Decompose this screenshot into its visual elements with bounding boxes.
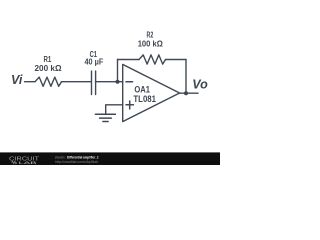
wire op-amp plus input to ground — [106, 105, 123, 114]
wire feedback top left — [118, 59, 140, 61]
svg-text:OA1: OA1 — [134, 85, 150, 95]
node A junction dot — [116, 80, 120, 84]
svg-text:40 µF: 40 µF — [85, 58, 104, 67]
svg-text:R2: R2 — [147, 30, 154, 39]
svg-text:200 kΩ: 200 kΩ — [35, 64, 63, 73]
svg-text:100 kΩ: 100 kΩ — [138, 40, 164, 49]
wire output — [180, 92, 198, 94]
wire feedback vertical left — [117, 60, 119, 82]
ground — [95, 114, 115, 121]
wire C1 to node A — [96, 81, 123, 83]
logo resistor squiggle — [12, 161, 18, 163]
footer CircuitLab logo wordmark — [9, 157, 39, 165]
svg-text:Vo: Vo — [192, 78, 208, 92]
wire feedback top right — [166, 59, 187, 61]
resistor R2 — [139, 55, 166, 64]
svg-text:Vi: Vi — [11, 73, 23, 87]
wire feedback vertical right — [185, 60, 187, 94]
svg-text:TL081: TL081 — [133, 94, 156, 104]
op-amp non-inverting input marker — [126, 101, 133, 109]
op-amp U1 triangle — [123, 64, 180, 121]
svg-text:LAB: LAB — [19, 160, 38, 165]
svg-text:http://circuitlab.com/c/bp5kzb: http://circuitlab.com/c/bp5kzb — [55, 159, 99, 164]
wire R1 to C1 — [62, 81, 92, 83]
capacitor C1 — [92, 71, 96, 94]
svg-text:R1: R1 — [44, 55, 52, 64]
footer bar — [0, 152, 220, 165]
footer caption text — [55, 155, 99, 164]
wire Vi to R1 — [25, 81, 35, 83]
resistor R1 — [35, 77, 62, 86]
op-amp inverting input marker — [126, 81, 133, 83]
output node junction dot — [184, 91, 188, 95]
